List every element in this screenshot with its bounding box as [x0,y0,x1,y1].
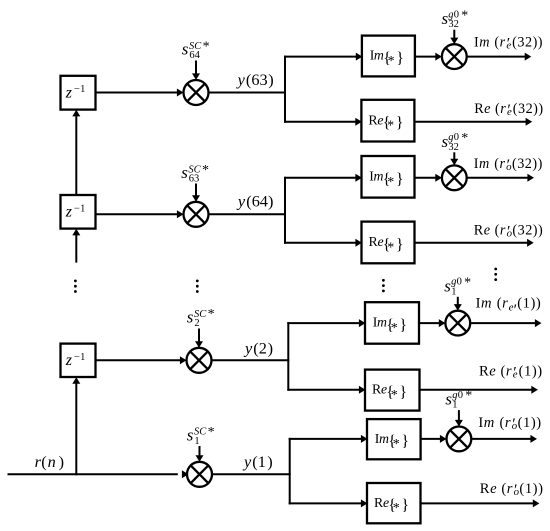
svg-text:): ) [268,192,273,211]
svg-text:*: * [461,131,468,146]
svg-text:(32)): (32)) [512,156,543,172]
wire: output arrow Re group 4 [421,499,540,507]
label Re (r_o(1)) [480,481,544,499]
label Im (r_o(1)) [478,415,541,433]
wire: s_1 down into multiplier M4 [196,446,204,462]
label Im (r_e(32)) [474,35,543,53]
svg-text:e: e [489,364,496,380]
wire: branch to Re block group 4 [289,499,368,507]
label Im (r_o(32)) [474,156,543,174]
node: branch point group 1 [284,56,286,123]
svg-text:R: R [480,481,490,497]
svg-text:m: m [479,156,489,172]
svg-text:m: m [481,296,492,312]
svg-text:R: R [479,364,489,380]
svg-text:}: } [396,115,404,132]
svg-text:e: e [507,106,512,118]
label Re (r_e(32)) [474,101,543,119]
svg-text:(32)): (32)) [513,101,544,117]
multiplier N4 [447,427,472,452]
wire: dangling vertical below delay D2 [72,229,80,263]
svg-text:*: * [388,54,395,69]
svg-text:*: * [464,275,471,290]
junction: tap on r(n) line feeding delay chain [75,473,77,475]
label s_2^SC* [187,307,215,329]
svg-text:R: R [474,222,484,238]
svg-text:s: s [181,163,188,182]
svg-text:e: e [484,222,490,238]
svg-text:}: } [399,317,407,334]
svg-text:r: r [502,296,508,312]
delay D2 (z^-1) [61,195,96,229]
svg-text:s: s [187,426,194,445]
svg-text:*: * [393,501,400,516]
svg-text:}: } [401,433,409,450]
wire: branch to Re block group 3 [287,386,365,394]
svg-text:−1: −1 [74,352,86,363]
node: branch point group 4 [289,438,291,505]
svg-text:}: } [396,236,404,253]
svg-text:r: r [499,156,505,172]
svg-text:r: r [500,101,506,117]
svg-text:e: e [490,481,497,497]
svg-text:*: * [387,175,394,190]
wire: output arrow Im group 3 [470,319,541,327]
svg-text:0: 0 [458,390,463,401]
svg-text:6: 6 [251,70,259,89]
wire: s_2 down into multiplier M3 [195,329,203,348]
wire: branch to Im block group 2 [284,174,362,182]
svg-text:*: * [393,437,400,452]
svg-text:32: 32 [448,19,459,30]
svg-text:3: 3 [260,70,268,89]
wire: s label down into multiplier N1 [450,30,458,45]
block Re{*} group 1 [361,100,414,142]
multiplier M1 [184,80,209,105]
label r(n) [35,452,64,471]
block Im{*} group 3 [365,302,419,344]
block Im{*} group 1 [362,36,415,77]
svg-text:(32)): (32)) [512,35,543,51]
wire: delay D3 output to multiplier M3 [96,356,187,364]
block Re{*} group 3 [365,370,420,411]
wire: input r(n) horizontal line [8,470,189,478]
svg-text:): ) [267,452,272,471]
wire: branch to Re block group 2 [284,239,362,247]
svg-text:y: y [243,339,253,358]
svg-text:I: I [478,415,483,431]
label Re (r_o(32)) [474,222,543,240]
wire: delay D2 output to multiplier M2 [96,210,184,218]
svg-text:*: * [203,39,210,54]
svg-text:n: n [48,452,56,471]
label y(1) [242,452,273,471]
svg-text:2: 2 [194,318,199,329]
label y(63) [236,70,274,89]
svg-text:m: m [484,415,495,431]
svg-text:(: ( [497,296,502,312]
multiplier N1 [442,44,467,69]
svg-text:4: 4 [260,192,268,211]
svg-text:s: s [182,40,189,59]
block Im{*} group 2 [362,156,415,198]
block Re{*} group 4 [367,483,421,523]
svg-text:1: 1 [452,400,457,411]
wire: vertical from r(n) line up into delay D3 [72,377,80,474]
svg-text:r: r [505,415,511,431]
svg-text:6: 6 [252,192,260,211]
svg-text:*: * [391,321,398,336]
wire: output arrow Re group 2 [415,239,534,247]
svg-text:s: s [187,308,194,327]
svg-text:*: * [391,388,398,403]
svg-text:y: y [236,192,246,211]
svg-text:*: * [387,119,394,134]
svg-text:1: 1 [194,436,199,447]
wire: Im block to multiplier N1 [415,53,442,61]
label y(64) [236,192,274,211]
svg-text:(: ( [501,481,506,497]
svg-text:): ) [268,339,273,358]
wire: output arrow Im group 1 [467,53,532,61]
multiplier N2 [442,165,467,190]
multiplier M4 [187,462,212,487]
label Re (r_e(1)) [479,364,543,382]
wire: s_64 down into multiplier M1 [192,61,200,81]
svg-text:1: 1 [451,286,456,297]
svg-text:*: * [465,389,472,404]
svg-text:}: } [399,384,407,401]
svg-text:y: y [242,452,252,471]
svg-text:1: 1 [258,452,266,471]
wire: branch to Im block group 3 [287,319,365,327]
label Im (r_e(1)) [476,296,542,320]
svg-text:63: 63 [189,174,200,185]
svg-text:(1)): (1)) [518,415,542,431]
svg-text:64: 64 [189,50,200,61]
svg-text:m: m [479,35,489,51]
wire: Im block to multiplier N3 [419,319,445,327]
wire: output arrow Re group 3 [420,386,538,394]
wire: multiplier M1 to branch node, signal y(63) [209,92,287,94]
wire: Im block to multiplier N4 [421,435,447,443]
delay D3 (z^-1) [61,344,96,377]
label s_32^g0* group 1 [442,8,469,30]
wire: vertical from delay D2 up into delay D1 [72,110,80,195]
wire: s label down into multiplier N3 [454,297,462,311]
wire: output arrow Im group 2 [467,174,534,182]
svg-text:(1)): (1)) [519,481,543,497]
wire: Im block to multiplier N2 [415,174,442,182]
wire: branch to Im block group 1 [284,53,362,61]
svg-text:): ) [268,70,273,89]
wire: output arrow Im group 4 [471,435,537,443]
label s_1^g0* group 4 [445,389,472,411]
vertical dots: left delay chain continuation [74,280,77,293]
vertical dots: far right outputs continuation [494,268,497,281]
delay D1 (z^-1) [61,76,96,110]
svg-text:z: z [65,84,73,101]
svg-text:(32)): (32)) [512,222,543,238]
svg-text:*: * [387,240,394,255]
svg-text:−1: −1 [74,84,86,95]
svg-text:e: e [513,369,518,381]
label s_64^SC* [182,39,210,61]
label s_63^SC* [181,163,209,185]
wire: multiplier M3 to branch node, signal y(2) [212,359,290,361]
svg-text:r: r [507,481,513,497]
label s_32^g0* group 2 [442,131,469,153]
svg-text:2: 2 [259,339,267,358]
svg-text:(: ( [500,415,505,431]
node: branch point group 3 [287,322,289,391]
svg-text:e: e [506,40,511,52]
multiplier M3 [187,348,212,373]
wire: delay D1 output to multiplier M1 [96,89,184,97]
wire: output arrow Re group 1 [414,118,532,126]
wire: s label down into multiplier N2 [450,152,458,165]
svg-text:): ) [59,452,64,471]
svg-text:0: 0 [457,277,462,288]
wire: branch to Re block group 1 [284,118,362,126]
block Re{*} group 2 [362,222,415,264]
multiplier M2 [184,202,209,227]
svg-text:*: * [208,307,215,322]
svg-text:r: r [500,35,506,51]
svg-text:r: r [506,364,512,380]
svg-text:r: r [500,222,506,238]
svg-text:*: * [461,8,468,23]
label s_1^SC* [187,425,215,447]
svg-text:(1)): (1)) [517,296,541,312]
svg-text:R: R [474,101,484,117]
wire: multiplier M4 to branch node, signal y(1) [212,473,291,475]
svg-text:−1: −1 [74,203,86,214]
svg-text:z: z [65,204,73,221]
svg-text:*: * [208,425,215,440]
wire: s label down into multiplier N4 [455,410,463,426]
node: branch point group 2 [284,177,286,244]
svg-text:(1)): (1)) [519,364,543,380]
svg-text:}: } [396,171,404,188]
vertical dots: right column continuation (Im blocks) [382,279,385,292]
block Im{*} group 4 [367,419,421,459]
vertical dots: middle column continuation [196,280,199,293]
svg-text:}: } [401,497,409,514]
svg-text:e: e [484,101,490,117]
label y(2) [243,339,273,358]
svg-text:*: * [202,163,209,178]
multiplier N3 [445,311,470,336]
svg-text:z: z [65,352,73,369]
wire: multiplier M2 to branch node, signal y(64) [209,213,287,215]
svg-text:}: } [396,50,404,67]
wire: branch to Im block group 4 [289,435,368,443]
svg-text:32: 32 [448,142,459,153]
svg-text:(: ( [501,364,506,380]
svg-text:I: I [476,296,481,312]
label s_1^g0* group 3 [444,275,471,297]
wire: s_63 down into multiplier M2 [192,184,200,202]
svg-text:(: ( [41,452,46,471]
svg-text:y: y [236,70,246,89]
